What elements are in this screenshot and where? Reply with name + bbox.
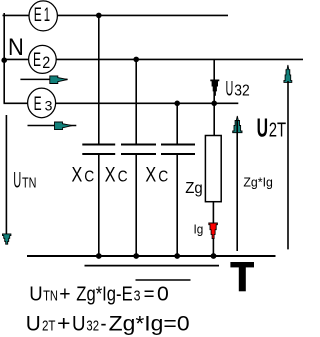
svg-text:N: N xyxy=(8,34,24,61)
svg-text:3: 3 xyxy=(45,98,53,114)
svg-text:Zg*Ig-E: Zg*Ig-E xyxy=(76,283,132,305)
svg-text:Ig: Ig xyxy=(194,222,204,237)
svg-text:U: U xyxy=(226,78,234,101)
svg-text:TN: TN xyxy=(43,288,58,304)
svg-text:E: E xyxy=(34,94,42,115)
svg-text:E: E xyxy=(34,5,42,26)
svg-text:TN: TN xyxy=(22,175,36,192)
svg-text:32: 32 xyxy=(86,318,99,334)
svg-text:=: = xyxy=(144,283,155,305)
svg-text:2T: 2T xyxy=(269,119,286,141)
svg-text:C: C xyxy=(158,169,168,186)
svg-text:U: U xyxy=(29,283,42,305)
svg-text:C: C xyxy=(84,169,94,186)
svg-text:3: 3 xyxy=(134,288,141,304)
svg-text:C: C xyxy=(118,169,128,186)
svg-text:E: E xyxy=(33,50,41,71)
svg-text:2: 2 xyxy=(42,54,50,72)
svg-text:X: X xyxy=(105,164,116,187)
svg-text:U: U xyxy=(257,112,268,142)
svg-text:Zg*Ig: Zg*Ig xyxy=(243,175,273,190)
svg-text:U: U xyxy=(13,168,21,193)
svg-text:+: + xyxy=(57,311,71,335)
svg-text:X: X xyxy=(145,164,156,187)
svg-text:U: U xyxy=(26,311,41,335)
svg-text:+: + xyxy=(59,283,70,305)
svg-text:2T: 2T xyxy=(42,318,56,334)
svg-text:32: 32 xyxy=(234,83,250,100)
svg-text:U: U xyxy=(72,311,86,335)
svg-text:Zg*Ig=0: Zg*Ig=0 xyxy=(109,311,190,335)
svg-text:0: 0 xyxy=(157,283,169,305)
svg-text:X: X xyxy=(72,164,83,187)
svg-text:Zg: Zg xyxy=(185,180,203,197)
svg-text:-: - xyxy=(101,311,107,335)
svg-text:1: 1 xyxy=(44,5,50,26)
